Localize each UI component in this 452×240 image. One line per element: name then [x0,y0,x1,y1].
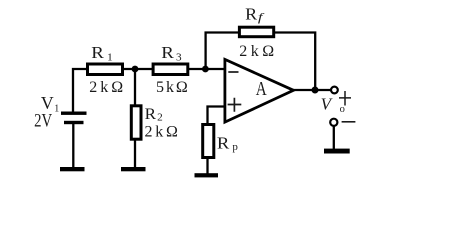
terminal circle minus [330,119,337,126]
svg-text:V: V [321,95,334,114]
op-amp U1 triangle [225,59,294,122]
plus sign at output terminal [339,91,351,106]
wire: non-inverting input from Rp [208,107,226,125]
voltage source V1 battery bottom plate [64,121,84,124]
wire: lower terminal to ground [333,126,335,150]
svg-text:V: V [41,93,54,113]
node junction R1/R2/R3 [132,66,139,73]
svg-text:3: 3 [176,52,182,64]
svg-text:p: p [232,141,238,153]
resistor Rp [203,125,214,158]
wire: R3 to op-amp inverting input [189,68,225,70]
wire: Rf to output riser down to output node [274,33,315,91]
op-amp minus input sign [228,71,238,73]
ground (output) [324,149,350,154]
ground (Rp) [195,173,219,177]
svg-text:5kΩ: 5kΩ [156,79,188,96]
resistor Rf [239,27,273,37]
svg-text:o: o [340,104,345,115]
svg-text:2kΩ: 2kΩ [145,124,179,141]
wire: left horizontal from source corner to R1 [73,69,87,112]
svg-text:1: 1 [107,52,113,64]
wire: battery bottom to ground [72,124,74,168]
resistor R1 [88,64,123,75]
svg-text:2V: 2V [34,111,52,131]
svg-text:R: R [91,43,104,62]
wire: R2 to ground [134,140,136,168]
svg-text:R: R [161,43,174,62]
wire: R1 to R3 [124,68,153,70]
minus sign at lower terminal [342,121,356,123]
svg-text:2kΩ: 2kΩ [89,79,123,96]
svg-text:R: R [217,133,230,152]
svg-text:1: 1 [54,103,59,115]
node junction feedback / inverting input [202,66,209,73]
wire: op-amp output to terminal [293,89,331,91]
resistor R3 [153,64,188,75]
wire: Rp to ground [206,157,208,174]
wire: node down to R2 [134,69,136,106]
ground (battery) [60,167,85,171]
node output junction [312,87,319,94]
svg-text:R: R [245,4,258,23]
resistor R2 [131,106,141,139]
svg-text:f: f [258,12,265,24]
terminal circle plus [331,87,338,94]
svg-text:A: A [256,77,267,99]
svg-text:2kΩ: 2kΩ [239,43,274,60]
ground (R2) [121,167,146,171]
op-amp plus input sign [228,98,242,112]
svg-text:2: 2 [157,112,163,124]
svg-text:R: R [145,106,157,123]
wire: feedback riser up and to Rf [206,33,239,70]
voltage source V1 battery top plate [61,112,87,115]
